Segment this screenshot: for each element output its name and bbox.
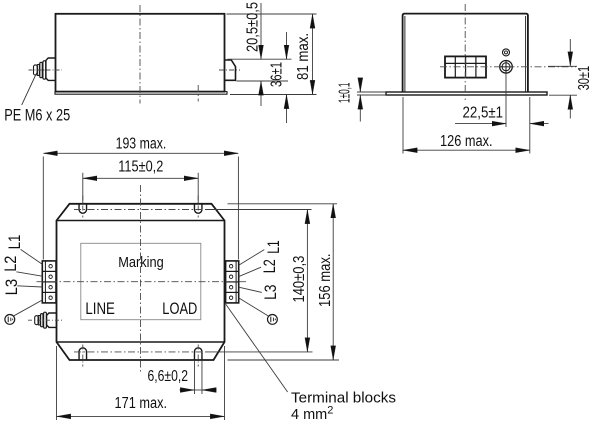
body bottom edge	[57, 341, 225, 343]
mounting slot bottom-left	[79, 348, 87, 360]
flange top extension line	[228, 203, 338, 205]
svg-text:36±1: 36±1	[269, 62, 286, 87]
right terminal strip	[226, 261, 239, 303]
side view slot center tick	[197, 85, 199, 102]
end view walls outline	[403, 14, 528, 92]
leader L1 left	[21, 249, 43, 264]
slot centerline vertical top-right	[197, 196, 199, 218]
slot centerline horizontal bottom	[74, 351, 205, 353]
svg-text:20,5±0,5: 20,5±0,5	[245, 2, 262, 52]
leader L1 right	[239, 250, 265, 266]
PE bolt side view: hex nut	[46, 58, 56, 80]
end view vertical centerline	[464, 4, 466, 100]
svg-text:81 max.: 81 max.	[295, 33, 312, 80]
left terminal strip	[42, 261, 56, 303]
115 extension line left	[82, 173, 84, 204]
mounting slot bottom-right	[194, 348, 202, 360]
PE bolt bottom centerline	[28, 319, 62, 321]
115 extension line right	[197, 173, 199, 204]
mounting slot top-right	[194, 204, 202, 213]
body top edge	[57, 220, 225, 222]
leader L3 left	[17, 286, 42, 287]
slot centerline vertical bottom-left	[82, 345, 84, 367]
171 extension line left	[56, 346, 58, 420]
small screw	[503, 49, 510, 56]
end view terminal block	[445, 56, 486, 77]
ground symbol left	[5, 315, 15, 325]
notch centerline	[219, 69, 240, 71]
big screw	[500, 61, 513, 74]
svg-text:4 mm2: 4 mm2	[291, 405, 333, 424]
side view extension line notch top	[228, 58, 292, 60]
side view body	[56, 14, 225, 92]
dimension 126 max line	[403, 149, 529, 151]
flange bottom extension line	[228, 359, 340, 361]
dimension 36±1 arrows	[286, 32, 288, 59]
dimension 171 max line	[57, 415, 225, 417]
193 extension line right	[237, 157, 239, 260]
svg-text:193 max.: 193 max.	[116, 135, 167, 152]
dimension 156 line	[332, 204, 334, 360]
svg-text:L1: L1	[5, 235, 24, 250]
flange thickness extension lines	[357, 91, 386, 93]
PE bolt side view: thread tip	[37, 64, 39, 75]
mounting slot top-left	[79, 204, 87, 213]
ground symbol right	[268, 315, 278, 325]
leader L3 right	[239, 287, 262, 292]
slot centerline vertical bottom-right	[197, 345, 199, 367]
svg-text:L2: L2	[260, 259, 279, 273]
dimension 20,5±0,5 arrows	[260, 3, 262, 59]
leader L2 right	[239, 267, 261, 276]
22,5 dimension arrows	[455, 123, 506, 125]
svg-text:22,5±1: 22,5±1	[463, 105, 504, 122]
dimension 1±0,1 arrows	[359, 81, 361, 92]
slot center extension line bottom	[205, 351, 313, 353]
marking area rectangle	[81, 243, 201, 319]
flange outline	[57, 204, 225, 360]
slot centerline horizontal top	[74, 209, 205, 211]
svg-text:1±0,1: 1±0,1	[336, 83, 353, 104]
screw center extension line	[505, 74, 507, 127]
PE bolt bottom view: washers	[44, 312, 47, 328]
PE bolt bottom view: hex nut	[47, 313, 57, 327]
svg-text:L2: L2	[1, 256, 20, 272]
svg-text:PE M6 x 25: PE M6 x 25	[4, 106, 70, 125]
svg-text:L3: L3	[261, 285, 280, 300]
126 extension lines	[402, 97, 404, 154]
end view base bar	[386, 92, 547, 95]
dimension 193 max line	[44, 152, 239, 154]
dimension 30±1 arrows	[569, 39, 571, 66]
svg-text:Terminal blocks: Terminal blocks	[291, 391, 396, 407]
dimension 6,6 arrows	[180, 389, 195, 391]
side view extension line bottom	[230, 94, 317, 96]
leader terminal blocks	[226, 304, 288, 392]
svg-text:171 max.: 171 max.	[115, 395, 168, 412]
leader L2 left	[16, 272, 42, 276]
side view extension line top	[227, 13, 317, 15]
svg-text:6,6±0,2: 6,6±0,2	[148, 368, 189, 385]
30±1 extension line	[549, 94, 577, 96]
leader ground right	[239, 298, 269, 316]
193 extension line left	[42, 157, 44, 260]
slot centerline vertical top-left	[82, 196, 84, 218]
main horizontal centerline	[37, 281, 248, 283]
svg-text:30±1: 30±1	[576, 66, 593, 90]
leader ground left	[14, 300, 42, 316]
PE leader line	[22, 73, 37, 105]
end view inner wall lines	[404, 16, 406, 92]
svg-text:156 max.: 156 max.	[317, 254, 334, 308]
svg-text:115±0,2: 115±0,2	[118, 158, 163, 175]
PE bolt centerline	[29, 69, 63, 71]
svg-text:LOAD: LOAD	[162, 299, 197, 318]
slot center extension line top	[205, 209, 312, 211]
dimension 140 line	[306, 210, 308, 352]
171 extension line right	[224, 346, 226, 420]
end view horizontal centerline	[440, 66, 576, 68]
PE bolt side view: washers	[43, 61, 46, 79]
svg-text:LINE: LINE	[85, 299, 115, 318]
svg-text:L3: L3	[2, 279, 21, 296]
svg-text:L1: L1	[264, 240, 283, 254]
dimension 115 line	[83, 177, 198, 179]
svg-text:126 max.: 126 max.	[440, 133, 493, 150]
svg-text:140±0,3: 140±0,3	[291, 256, 308, 303]
side view terminal notch	[225, 60, 236, 80]
side view vertical centerline	[139, 5, 141, 104]
side view extension line notch bottom	[237, 80, 289, 82]
side view base plate	[55, 92, 227, 95]
dimension 81 max line	[312, 14, 314, 94]
PE bolt bottom view: thread tip	[38, 315, 40, 325]
main vertical centerline	[140, 185, 142, 372]
6,6 extension lines	[193, 361, 195, 394]
